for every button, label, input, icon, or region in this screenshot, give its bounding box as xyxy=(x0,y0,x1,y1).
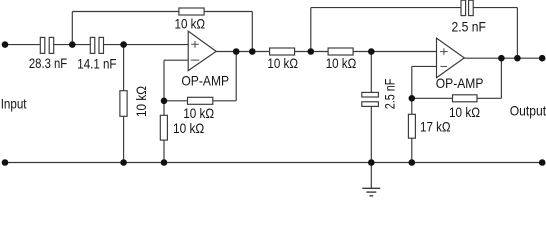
wire top-right feedback down to output xyxy=(516,8,518,59)
node U1 output feedback tap xyxy=(249,48,256,55)
wire C3 to ground rail xyxy=(370,107,372,163)
resistor R1 10k top feedback xyxy=(179,8,204,15)
svg-text:2.5 nF: 2.5 nF xyxy=(382,79,398,110)
wire chain node down to C3 xyxy=(370,52,372,93)
wire U1 minus input stub xyxy=(164,59,188,61)
node U1 minus junction xyxy=(161,98,168,105)
svg-text:OP-AMP: OP-AMP xyxy=(436,75,484,91)
wire top-left feedback down to output node xyxy=(251,12,253,52)
svg-text:10 kΩ: 10 kΩ xyxy=(175,16,206,32)
wire U2 minus node down through R8 xyxy=(411,66,413,162)
node B xyxy=(120,41,127,48)
svg-text:14.1 nF: 14.1 nF xyxy=(77,56,116,72)
wire output node down to R5 xyxy=(235,52,237,101)
resistor R7 10k U2 feedback xyxy=(453,95,478,102)
resistor R6 10k U1 gain xyxy=(160,115,167,140)
wire U2 output line xyxy=(464,57,542,59)
node U2 output feedback tap xyxy=(498,55,505,62)
ground stem xyxy=(370,163,372,189)
node chain C3 tap xyxy=(368,48,375,55)
svg-text:2.5 nF: 2.5 nF xyxy=(452,19,486,35)
wire minus node down through R6 xyxy=(163,60,165,162)
node ground rail left terminal xyxy=(2,159,9,166)
resistor R5 10k U1 feedback xyxy=(188,97,213,104)
wire U2 output down to R7 xyxy=(500,58,502,98)
wire top-right feedback left of C4 xyxy=(311,7,461,9)
svg-text:17 kΩ: 17 kΩ xyxy=(420,118,451,134)
svg-text:Output: Output xyxy=(510,102,546,118)
node ground rail R8 xyxy=(409,159,416,166)
svg-text:Input: Input xyxy=(1,96,27,112)
node U2 minus junction xyxy=(409,95,416,102)
resistor R2 10k vertical to ground xyxy=(120,91,127,117)
wire U2 minus input stub xyxy=(412,65,437,67)
svg-text:10 kΩ: 10 kΩ xyxy=(173,120,204,136)
svg-text:10 kΩ: 10 kΩ xyxy=(183,105,214,121)
capacitor C1 28.3nF plates xyxy=(40,37,45,53)
resistor R8 17k U2 gain xyxy=(408,114,415,138)
ground xyxy=(362,188,380,196)
node U2 output cap tap xyxy=(514,55,521,62)
wire node B down through R2 to ground rail xyxy=(123,45,125,163)
node ground rail C3 xyxy=(368,159,375,166)
node input terminal xyxy=(2,41,9,48)
node output terminal xyxy=(539,55,546,62)
wire input rail left segment xyxy=(5,44,40,46)
node A xyxy=(69,41,76,48)
op-amp U2 xyxy=(437,38,465,78)
svg-text:28.3 nF: 28.3 nF xyxy=(29,55,67,71)
op-amp U1 xyxy=(188,31,216,71)
capacitor C2 14.1nF plates xyxy=(90,37,95,53)
wire top-right feedback right of C4 xyxy=(473,7,517,9)
capacitor C4 2.5nF plates xyxy=(461,0,466,15)
node ground rail R2 xyxy=(120,159,127,166)
wire node A up xyxy=(71,12,73,45)
wire stage1 output to U2 input chain xyxy=(216,51,436,53)
wire between C2 and op-amp U1 plus input xyxy=(104,44,189,46)
svg-text:10 kΩ: 10 kΩ xyxy=(326,55,357,71)
node ground rail right terminal xyxy=(539,159,546,166)
capacitor C3 2.5nF plates xyxy=(362,92,379,97)
node U1 output xyxy=(233,48,240,55)
svg-text:10 kΩ: 10 kΩ xyxy=(267,55,298,71)
svg-text:10 kΩ: 10 kΩ xyxy=(133,86,149,117)
wire chain node up to C4 wire xyxy=(310,8,312,52)
node chain C4 tap xyxy=(308,48,315,55)
resistor R3 10k chain xyxy=(270,48,295,55)
svg-text:10 kΩ: 10 kΩ xyxy=(449,104,480,120)
wire ground rail xyxy=(5,162,542,164)
wire between C1 and node A xyxy=(54,44,91,46)
resistor R4 10k chain xyxy=(328,48,353,55)
node ground rail R6 xyxy=(161,159,168,166)
wire R5 feedback horizontal xyxy=(164,100,236,102)
wire R7 feedback horizontal xyxy=(412,97,502,99)
wire top-left feedback horizontal xyxy=(72,11,252,13)
svg-text:OP-AMP: OP-AMP xyxy=(181,73,229,89)
